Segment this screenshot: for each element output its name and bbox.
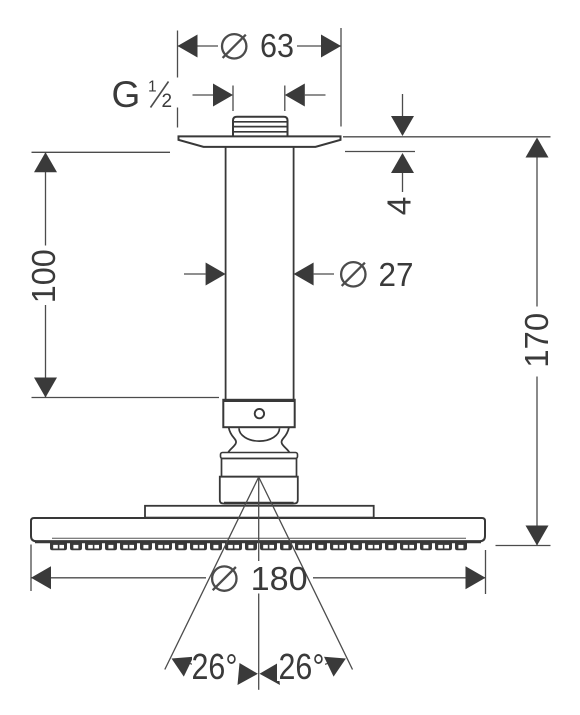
dim Ø180 left arrow — [31, 566, 51, 589]
dim G1/2 left extension line — [232, 86, 234, 112]
dim G1/2 right arrow tail — [305, 94, 326, 96]
nut upper box — [222, 459, 297, 477]
dim G1/2 left arrow — [213, 84, 233, 107]
collar box — [223, 400, 294, 427]
dim Ø63 line left segment — [178, 45, 219, 47]
dim 170 line lower — [536, 377, 538, 546]
nut top band — [221, 453, 298, 459]
dim Ø27 left arrow — [206, 263, 226, 286]
spray axis centerline lower — [258, 594, 260, 690]
thread stub G1/2 — [233, 117, 288, 138]
disc bottom thick edge — [35, 540, 481, 543]
dim 170 bottom extension line — [496, 545, 551, 547]
nut lower box — [220, 477, 298, 504]
svg-text:26°: 26° — [279, 646, 325, 687]
dim 100 bottom arrow — [34, 378, 57, 398]
svg-text:180: 180 — [251, 561, 308, 598]
dim Ø180 right arrow — [466, 566, 486, 589]
thread stub rib 1 — [233, 121, 288, 123]
dim 100 top arrow — [34, 152, 57, 172]
dim Ø63 left extension line upper — [177, 31, 179, 78]
svg-text:4: 4 — [381, 197, 418, 216]
left 26 outer arrow — [172, 657, 194, 677]
svg-text:G: G — [112, 74, 141, 115]
svg-text:100: 100 — [26, 249, 63, 303]
ceiling flange plate — [179, 136, 341, 147]
ceiling extension line (flange top level) — [343, 136, 551, 138]
thread stub rib 2 — [233, 126, 288, 128]
dim Ø27 label — [341, 262, 365, 286]
ball joint sphere arc — [239, 428, 280, 441]
left 26 inner arrow — [238, 663, 258, 685]
right 26 outer arrow — [324, 657, 346, 677]
svg-text:26°: 26° — [192, 646, 238, 687]
dim Ø63 left extension line lower — [177, 108, 179, 128]
nut lower box bottom thick edge — [224, 502, 294, 505]
dim 100 top extension line — [32, 151, 171, 153]
dim 4 up arrow — [391, 153, 414, 173]
dim Ø180 line left segment — [31, 577, 206, 579]
dim Ø180 line right segment — [313, 577, 486, 579]
dim 4 down arrow — [391, 116, 414, 136]
dim 170 up arrow — [526, 138, 549, 158]
disc face seam — [52, 537, 466, 539]
screw hole — [255, 409, 264, 418]
left 26 text mask — [192, 647, 240, 681]
dim Ø27 left arrow tail — [184, 273, 206, 275]
svg-text:1: 1 — [148, 79, 157, 96]
dim G1/2 right extension line — [284, 86, 286, 112]
dim 100 line lower — [45, 305, 47, 398]
dim Ø63 left arrow — [178, 35, 198, 58]
shower head disc — [31, 518, 485, 541]
right 26 inner arrow — [260, 663, 280, 685]
dim Ø63 right arrow — [321, 35, 341, 58]
head tier2 plate — [145, 506, 374, 518]
pipe left wall — [225, 147, 227, 399]
dim Ø180 right extension line — [485, 550, 487, 594]
svg-text:27: 27 — [379, 257, 414, 294]
ball joint left profile — [228, 427, 236, 453]
dim 4 lower extension line — [345, 151, 415, 153]
thread stub rib 3 — [233, 131, 288, 133]
dim G1/2 right arrow — [285, 84, 305, 107]
fraction slash — [151, 82, 169, 108]
dim Ø180 label — [212, 566, 236, 590]
svg-text:2: 2 — [162, 91, 173, 112]
dim Ø63 label — [222, 34, 246, 58]
dim Ø27 right arrow tail — [314, 273, 334, 275]
dim 4 lower tail — [402, 173, 404, 192]
right 26 text mask — [277, 647, 325, 681]
dim 170 down arrow — [526, 526, 549, 546]
pipe right wall — [293, 147, 295, 399]
angle arc right — [265, 662, 331, 674]
dim 170 line upper — [536, 158, 538, 307]
angle arc left — [186, 662, 253, 674]
collar top thick edge — [223, 399, 294, 402]
nozzle strip — [50, 543, 467, 550]
spray cone right line — [259, 477, 353, 670]
dim 4 upper tail — [402, 94, 404, 116]
spray cone left line — [165, 477, 259, 670]
dim 100 bottom extension line — [32, 397, 220, 399]
dim Ø63 line right segment — [297, 45, 341, 47]
spray axis centerline upper — [258, 477, 260, 561]
svg-text:63: 63 — [260, 28, 294, 65]
ball joint right profile — [281, 427, 289, 453]
dim Ø27 right arrow — [294, 263, 314, 286]
dim 100 line upper — [45, 152, 47, 245]
svg-text:170: 170 — [519, 313, 556, 368]
dim Ø63 right extension line — [340, 28, 342, 127]
dim Ø180 left extension line — [30, 545, 32, 592]
dim G1/2 left arrow tail — [193, 94, 214, 96]
